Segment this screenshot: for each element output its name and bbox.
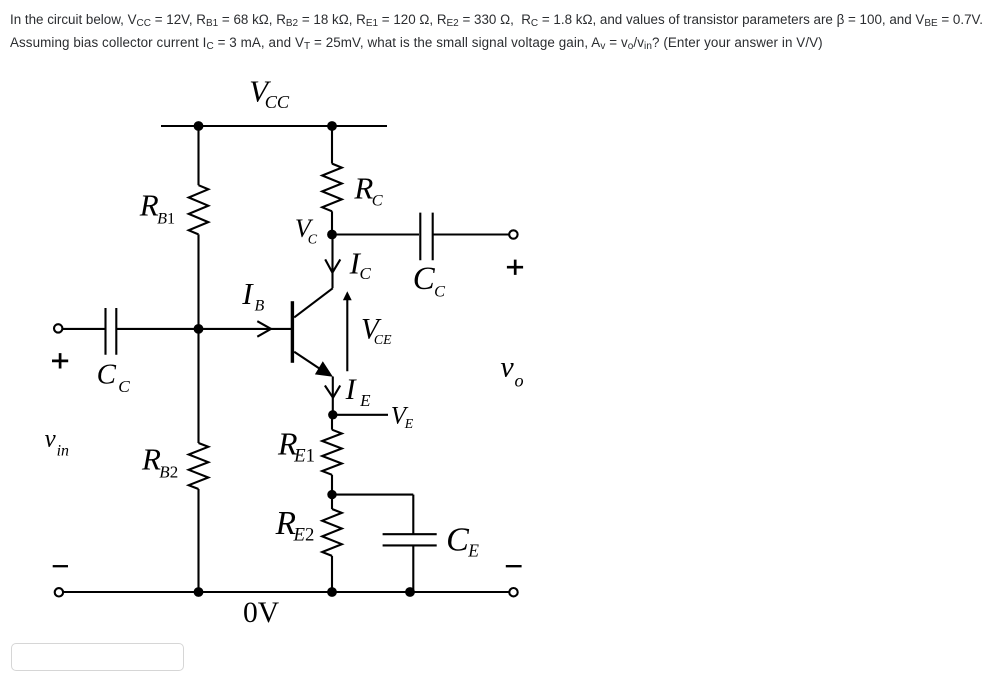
svg-text:B2: B2 — [159, 463, 178, 482]
svg-text:R: R — [353, 171, 373, 206]
svg-text:C: C — [308, 233, 318, 248]
svg-text:B1: B1 — [157, 209, 175, 227]
svg-text:CC: CC — [265, 92, 290, 112]
svg-text:v: v — [500, 351, 514, 384]
svg-text:E: E — [467, 541, 479, 561]
svg-text:E1: E1 — [293, 445, 315, 466]
svg-text:R: R — [141, 442, 161, 477]
svg-text:B: B — [255, 298, 265, 315]
svg-text:C: C — [446, 522, 470, 559]
svg-text:C: C — [360, 264, 372, 283]
svg-text:E2: E2 — [293, 525, 315, 546]
svg-text:C: C — [118, 377, 130, 396]
svg-text:C: C — [434, 281, 446, 300]
svg-text:C: C — [372, 191, 384, 210]
svg-text:I: I — [345, 373, 358, 406]
svg-text:I: I — [241, 276, 254, 311]
svg-text:o: o — [515, 370, 524, 390]
svg-text:E: E — [359, 391, 371, 410]
svg-text:v: v — [45, 426, 57, 453]
svg-text:CE: CE — [374, 332, 392, 347]
svg-text:C: C — [97, 359, 117, 391]
svg-text:C: C — [413, 261, 436, 297]
svg-text:E: E — [404, 416, 414, 431]
svg-text:0V: 0V — [243, 597, 280, 629]
svg-text:in: in — [57, 443, 69, 460]
svg-text:R: R — [139, 187, 159, 222]
